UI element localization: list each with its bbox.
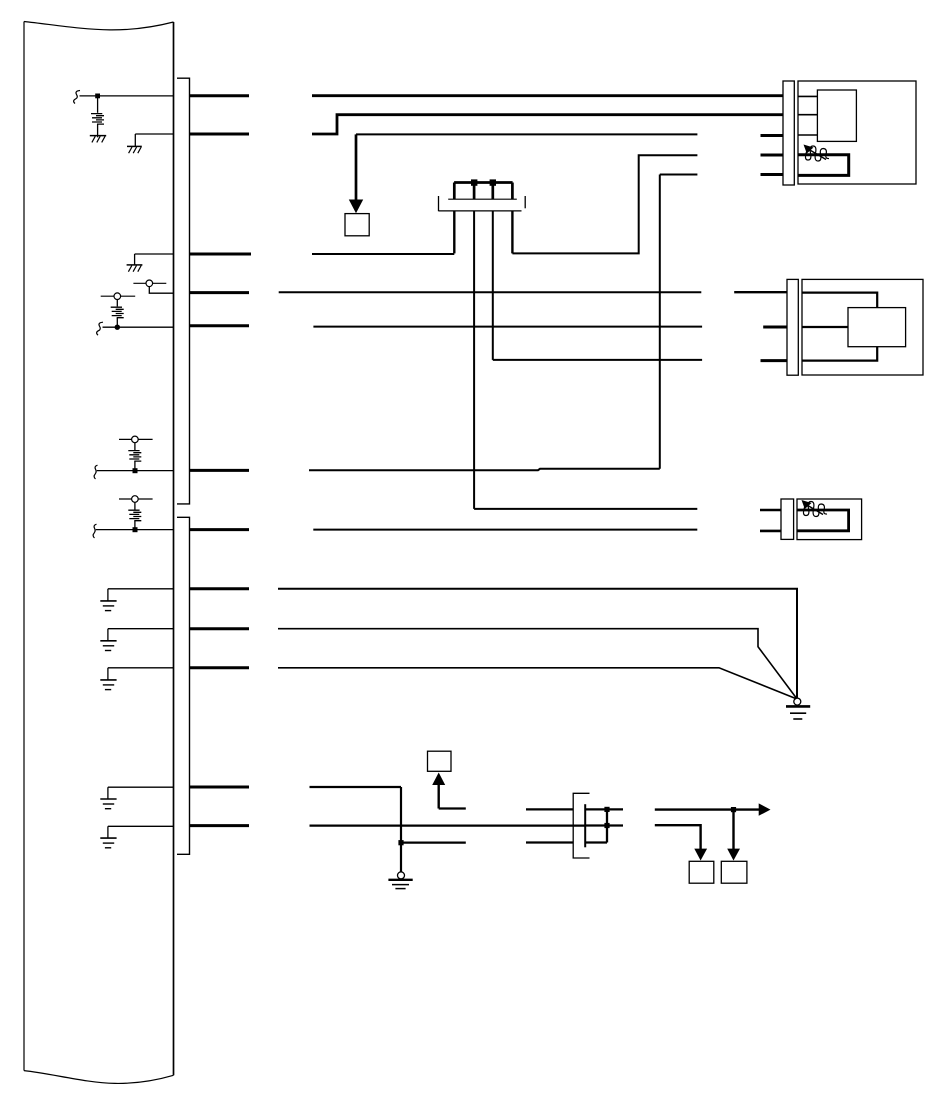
wire break S4 bbox=[93, 524, 96, 538]
connector C4 right wire bottom bbox=[585, 841, 607, 843]
wire pin3 down leg bbox=[134, 254, 136, 265]
connector CM cup right tick bbox=[524, 196, 526, 208]
component C1 inner box bbox=[817, 90, 856, 141]
wire ground trio 3 bbox=[278, 668, 796, 699]
connector CM junction square a bbox=[471, 179, 477, 185]
stub C2 pinC bbox=[761, 359, 788, 362]
component C2 wire mid bbox=[802, 326, 848, 328]
wire pin3 internal bbox=[135, 253, 174, 255]
box B2 bbox=[721, 861, 747, 883]
stub C1 pinC bbox=[761, 173, 784, 176]
ground G2 bars bbox=[388, 880, 412, 889]
wire pin8 down leg bbox=[107, 589, 109, 601]
junction J8 bbox=[731, 807, 736, 812]
heater H1 coil bbox=[805, 146, 829, 161]
connector CM pin2 lower / wire W10 bbox=[474, 211, 697, 509]
connector CM junction square b bbox=[490, 179, 496, 185]
wire J5 branch bbox=[401, 841, 466, 843]
switch SW4 line bbox=[119, 498, 153, 500]
wire R4 down bbox=[134, 521, 136, 530]
component C2 inner box bbox=[848, 308, 906, 347]
wire pin2 internal bbox=[135, 133, 173, 135]
component C1 box bbox=[798, 81, 916, 184]
wire W8 bbox=[313, 326, 702, 328]
wire break S1 bbox=[74, 91, 80, 104]
wire W5 bottom bbox=[309, 469, 660, 470]
component C3 box bbox=[797, 499, 862, 540]
connector strip 1 bbox=[177, 78, 190, 504]
chassis ground GC2 bbox=[127, 146, 142, 153]
wire pin1 internal bbox=[80, 95, 174, 97]
box T1 bbox=[345, 214, 369, 236]
connector CM top bar bbox=[454, 181, 512, 184]
resistor R2 coil bbox=[111, 307, 124, 318]
switch SW1 contact circle bbox=[146, 280, 153, 287]
stub pin5 bbox=[190, 324, 249, 327]
resistor R1 coil bbox=[91, 114, 104, 125]
connector CM cup bottom bbox=[439, 210, 522, 212]
connector CM pin3 lower / wire W9 bbox=[493, 211, 702, 360]
stub pin3 bbox=[190, 253, 251, 256]
connector CM pin4 lower bbox=[511, 211, 513, 253]
wire W11 bbox=[313, 529, 697, 531]
junction J3 bbox=[133, 468, 138, 473]
connector C4 left wire top bbox=[526, 808, 573, 810]
stub C3 pinB bbox=[760, 530, 781, 533]
connector strip 2 bbox=[177, 517, 190, 854]
wire W16 bbox=[310, 824, 586, 826]
component C2 box bbox=[802, 279, 923, 375]
earth ground GE3 bbox=[100, 680, 116, 690]
ground G2 circle bbox=[398, 872, 405, 879]
wire R2 down bbox=[116, 318, 118, 328]
wire W2 bbox=[312, 115, 783, 134]
wire pin12 down leg bbox=[107, 826, 109, 838]
wire W3 arrow vertical bbox=[355, 134, 358, 200]
wire pin11 internal bbox=[108, 786, 174, 788]
stub pin10 bbox=[190, 666, 249, 669]
wire R1 to ground bbox=[97, 124, 99, 137]
heater H2 arrowhead bbox=[802, 500, 812, 509]
ECM box bottom wavy edge bbox=[24, 1071, 174, 1084]
wire W15 vertical bbox=[400, 787, 402, 872]
stub pin1 bbox=[190, 94, 249, 97]
ECM box left edge bbox=[23, 22, 25, 1071]
arrowhead A1 bbox=[349, 200, 363, 214]
chassis ground GC3 bbox=[127, 265, 143, 272]
switch SW2 line bbox=[101, 295, 136, 297]
wire break S3 bbox=[94, 465, 97, 479]
wire pin8 internal bbox=[108, 588, 174, 590]
stub pin6 bbox=[190, 469, 249, 472]
stub C1 pinA bbox=[761, 134, 784, 137]
wire pin10 down leg bbox=[107, 668, 109, 680]
wire break S2 bbox=[97, 322, 103, 335]
wire W15 horizontal bbox=[310, 786, 402, 788]
box T2 bbox=[428, 751, 452, 771]
heater H2 arrow bbox=[807, 505, 823, 515]
wire pin12 internal bbox=[108, 825, 174, 827]
wire pin2 down leg bbox=[134, 134, 136, 146]
earth ground GE5 bbox=[100, 838, 116, 848]
wire J1 down bbox=[97, 96, 99, 113]
wire W4 bbox=[512, 155, 697, 253]
earth ground GE2 bbox=[100, 641, 116, 651]
heater H1 arrow bbox=[809, 150, 826, 160]
connector C4 right wire top bbox=[585, 808, 623, 810]
wire SW1 to pin4 bbox=[149, 287, 173, 294]
stub pin8 bbox=[190, 587, 249, 590]
ECM box top wavy edge bbox=[24, 22, 174, 30]
wire SW4 down bbox=[134, 502, 136, 509]
switch SW2 contact circle bbox=[114, 293, 121, 300]
connector C4 left wire bottom bbox=[526, 841, 573, 843]
wire pin11 down leg bbox=[107, 787, 109, 799]
wire W18 bbox=[655, 825, 701, 849]
wire A2 horizontal bbox=[439, 807, 466, 809]
heater H2 coil bbox=[803, 502, 827, 517]
switch SW1 line bbox=[133, 282, 166, 284]
wire W3 horizontal bbox=[356, 133, 697, 135]
wire W5 vertical bbox=[659, 175, 661, 469]
wire W1 bbox=[312, 94, 783, 97]
ground G1 bars bbox=[786, 706, 810, 719]
ECM box right edge bbox=[173, 22, 175, 1075]
connector CM pin1 lower bbox=[453, 211, 455, 253]
stub C3 pinA bbox=[760, 509, 781, 512]
stub C1 pinB bbox=[761, 154, 784, 157]
heater H2 loop bbox=[797, 510, 849, 531]
wire SW2 down bbox=[116, 300, 118, 307]
stub C2 pinA bbox=[734, 291, 787, 293]
connector C3 bar bbox=[781, 499, 794, 539]
connector C2 bar bbox=[787, 279, 798, 375]
connector C4 right bracket bbox=[584, 804, 586, 847]
chassis ground GC1 bbox=[90, 136, 106, 143]
connector CM cup left tick bbox=[438, 196, 440, 211]
wire ground trio 1 bbox=[278, 589, 797, 698]
stub pin11 bbox=[190, 786, 249, 789]
junction J7 bbox=[604, 823, 609, 828]
stub pin4 bbox=[190, 291, 249, 294]
wire W7 bbox=[279, 291, 702, 293]
earth ground GE4 bbox=[100, 799, 116, 809]
heater H1 loop bbox=[798, 155, 849, 176]
resistor R3 coil bbox=[128, 451, 141, 462]
wire pin9 down leg bbox=[107, 629, 109, 641]
connector C4 left bracket bbox=[573, 793, 589, 858]
wire W6 bbox=[312, 253, 454, 255]
switch SW3 contact circle bbox=[132, 436, 139, 443]
arrowhead A3 bbox=[759, 803, 771, 815]
switch SW4 contact circle bbox=[132, 496, 139, 503]
stub pin7 bbox=[190, 528, 249, 531]
component C1 inner stubs bbox=[798, 96, 817, 135]
connector CM pin posts bbox=[454, 183, 512, 200]
wire pin10 internal bbox=[108, 667, 174, 669]
junction J6 bbox=[604, 807, 609, 812]
wire SW3 down bbox=[134, 443, 136, 450]
junction J5 bbox=[398, 840, 403, 845]
box B1 bbox=[689, 861, 714, 883]
connector C1 bar bbox=[783, 81, 794, 185]
arrowhead A2 bbox=[432, 773, 445, 786]
wire J8 down bbox=[732, 810, 734, 850]
wire ground trio 2 bbox=[278, 629, 797, 699]
connector C4 jumper vertical bbox=[606, 809, 608, 842]
connector CM upper line bbox=[448, 198, 517, 200]
wire W5 top bbox=[660, 174, 698, 176]
connector C4 right wire mid bbox=[585, 824, 623, 826]
component C2 wire top bbox=[802, 293, 877, 308]
component C2 wire bottom bbox=[802, 347, 877, 361]
junction J2 bbox=[115, 325, 120, 330]
stub pin9 bbox=[190, 627, 249, 630]
wire pin7 internal bbox=[96, 529, 174, 531]
arrowhead A4 bbox=[727, 849, 740, 861]
resistor R4 coil bbox=[128, 510, 141, 521]
switch SW3 line bbox=[119, 438, 153, 440]
wire pin5 internal bbox=[103, 326, 174, 328]
heater H1 arrowhead bbox=[804, 145, 814, 154]
junction J1 bbox=[95, 94, 100, 99]
stub pin12 bbox=[190, 824, 249, 827]
ground G1 circle bbox=[794, 698, 801, 705]
arrow A2 vertical bbox=[438, 785, 440, 809]
wire pin6 internal bbox=[97, 470, 174, 472]
wire pin9 internal bbox=[108, 628, 174, 630]
junction J4 bbox=[133, 527, 138, 532]
wire W17 with arrow bbox=[655, 808, 759, 810]
arrowhead A5 bbox=[694, 849, 707, 861]
earth ground GE1 bbox=[100, 601, 116, 611]
stub pin2 bbox=[190, 133, 249, 136]
stub C2 pinB bbox=[763, 326, 787, 329]
wire R3 down bbox=[134, 461, 136, 471]
